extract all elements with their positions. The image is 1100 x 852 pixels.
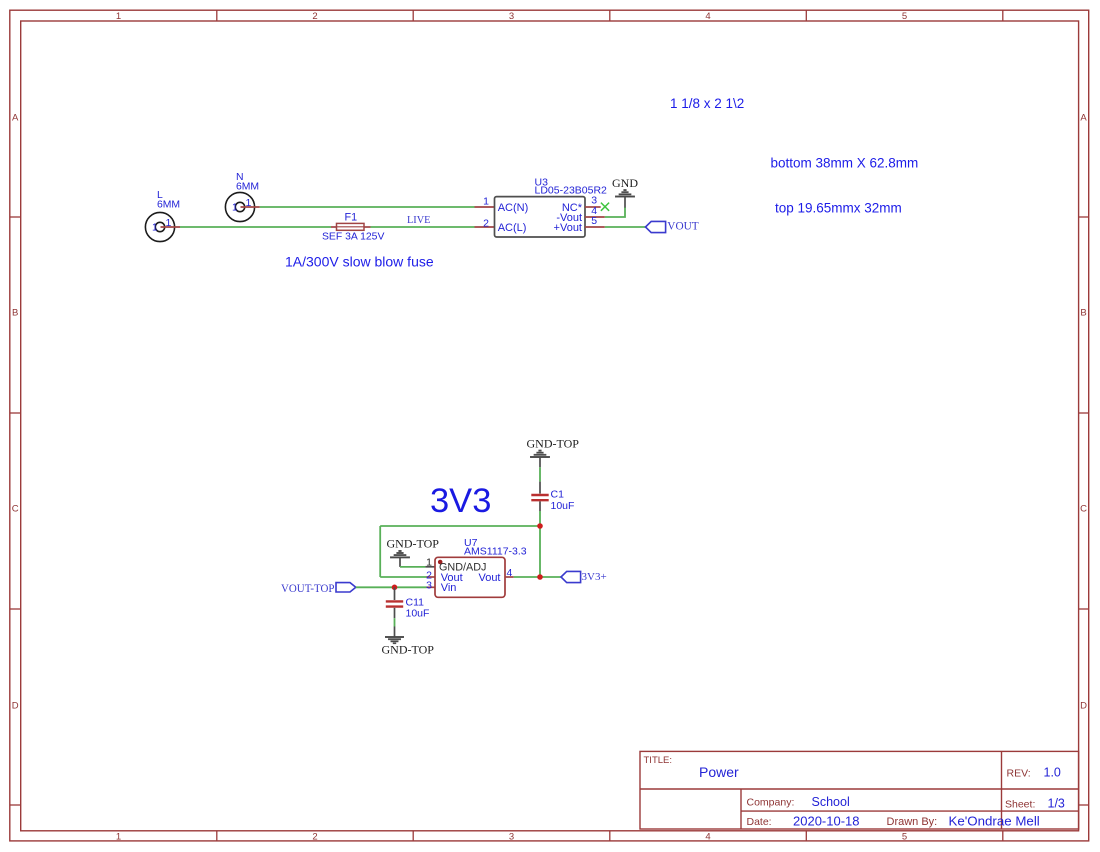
svg-text:4: 4 <box>705 832 710 843</box>
svg-text:A: A <box>1080 113 1087 124</box>
svg-text:TITLE:: TITLE: <box>644 755 673 766</box>
svg-text:C: C <box>12 504 19 515</box>
net label GND <box>612 176 638 190</box>
net label GND-TOP (bottom) <box>382 643 435 657</box>
svg-text:1: 1 <box>246 197 252 209</box>
capacitor C1 10uF <box>531 489 574 512</box>
net flag 3V3+ <box>561 571 607 583</box>
svg-text:AC(L): AC(L) <box>498 222 527 234</box>
svg-text:5: 5 <box>902 11 907 22</box>
frame column numbers top <box>116 11 907 22</box>
U7 pin 3 <box>426 579 435 591</box>
wire U3 pin4 to GND <box>605 207 625 217</box>
U7 pin 4 <box>505 567 514 579</box>
svg-text:D: D <box>1080 701 1087 712</box>
junction at C11 <box>392 585 398 591</box>
svg-text:1 1/8 x 2 1\2: 1 1/8 x 2 1\2 <box>670 96 744 111</box>
svg-text:6MM: 6MM <box>157 199 180 210</box>
C11 bottom lead <box>394 608 396 618</box>
frame row letters right <box>1080 113 1087 712</box>
U7 body AMS1117-3.3 <box>435 537 527 597</box>
wire N to U3 pin1 <box>260 206 475 208</box>
svg-text:Vin: Vin <box>441 582 457 594</box>
svg-text:2: 2 <box>312 11 317 22</box>
fuse F1 SEF 3A 125V <box>322 212 384 243</box>
svg-text:Drawn By:: Drawn By: <box>887 816 938 828</box>
svg-text:6MM: 6MM <box>236 181 259 192</box>
svg-text:Sheet:: Sheet: <box>1005 799 1035 811</box>
junction at C1 / loop <box>537 523 543 529</box>
svg-text:GND: GND <box>612 176 638 190</box>
svg-text:top 19.65mmx 32mm: top 19.65mmx 32mm <box>775 201 902 216</box>
svg-text:1/3: 1/3 <box>1048 797 1065 811</box>
svg-text:C1: C1 <box>551 489 565 501</box>
svg-text:Date:: Date: <box>747 816 772 828</box>
svg-text:3: 3 <box>509 11 514 22</box>
svg-text:1: 1 <box>166 217 172 229</box>
svg-text:1: 1 <box>116 832 121 843</box>
svg-text:1: 1 <box>152 222 158 233</box>
svg-text:Vout: Vout <box>478 572 500 584</box>
connector L (6MM) <box>145 190 180 242</box>
U3 pin 4 <box>585 205 605 217</box>
frame column ticks top <box>217 10 1003 21</box>
note text top 19.65mmx 32mm <box>775 201 902 216</box>
U3 pin 5 <box>585 215 605 227</box>
U3 pin 3 NC <box>585 195 601 208</box>
svg-text:VOUT: VOUT <box>667 220 698 232</box>
svg-text:C: C <box>1080 504 1087 515</box>
svg-text:1: 1 <box>426 556 432 568</box>
U7 pin 2 <box>426 570 435 582</box>
wire junction down to pin4 net <box>539 526 541 577</box>
svg-text:3: 3 <box>426 579 432 591</box>
svg-text:School: School <box>812 795 850 809</box>
svg-text:10uF: 10uF <box>551 500 575 512</box>
svg-text:5: 5 <box>902 832 907 843</box>
ground GND (earth symbol) <box>615 189 634 197</box>
svg-text:Ke'Ondrae Mell: Ke'Ondrae Mell <box>949 814 1040 829</box>
svg-text:3V3+: 3V3+ <box>582 571 607 583</box>
C1 top lead <box>539 482 541 494</box>
net label LIVE <box>407 215 430 226</box>
wire junction left <box>380 525 540 527</box>
U3 pin 1 <box>475 196 495 208</box>
svg-text:SEF 3A 125V: SEF 3A 125V <box>322 232 384 243</box>
wire L to fuse <box>180 226 331 228</box>
net flag VOUT <box>646 220 699 232</box>
svg-text:1A/300V slow blow fuse: 1A/300V slow blow fuse <box>285 254 434 270</box>
wire VOUT-TOP to U7 pin3 <box>356 586 427 588</box>
svg-text:REV:: REV: <box>1007 768 1031 780</box>
svg-text:AC(N): AC(N) <box>498 202 529 214</box>
svg-text:4: 4 <box>507 567 513 579</box>
frame row ticks right <box>1079 217 1089 805</box>
svg-text:1: 1 <box>483 196 489 208</box>
C11 top lead <box>394 587 396 600</box>
title block texts <box>644 755 1065 829</box>
net flag VOUT-TOP <box>281 581 356 595</box>
junction at pin4 net <box>537 574 543 580</box>
ground GND-TOP top (earth symbol) <box>530 450 549 458</box>
ground lead to C1 <box>539 458 541 468</box>
svg-text:3: 3 <box>509 832 514 843</box>
svg-text:1: 1 <box>116 11 121 22</box>
svg-text:+Vout: +Vout <box>554 222 582 234</box>
svg-text:1: 1 <box>232 202 238 213</box>
svg-text:Company:: Company: <box>747 797 795 809</box>
no-connect X on U3 pin 3 <box>601 203 609 211</box>
wire gnd to U7 pin1 <box>400 566 425 568</box>
note text 1A/300V slow blow fuse <box>285 254 434 270</box>
ground GND-TOP bottom (earth symbol, flipped) <box>385 636 404 644</box>
svg-text:D: D <box>12 701 19 712</box>
frame row ticks left <box>10 217 21 805</box>
svg-text:F1: F1 <box>345 212 358 224</box>
C1 bottom lead <box>539 501 541 511</box>
U7 pin 1 <box>425 556 435 568</box>
svg-text:B: B <box>12 308 18 319</box>
gnd lead <box>394 627 396 637</box>
wire C1 to junction <box>539 511 541 526</box>
note text bottom 38mm X 62.8mm <box>771 156 919 171</box>
svg-text:B: B <box>1080 308 1086 319</box>
svg-text:A: A <box>12 113 19 124</box>
GND symbol lead <box>624 197 626 208</box>
svg-text:LIVE: LIVE <box>407 215 430 226</box>
U3 body LD05-23B05R2 <box>495 177 608 238</box>
svg-text:GND-TOP: GND-TOP <box>387 537 440 551</box>
wire to U7 pin2 <box>380 576 426 578</box>
wire fuse to U3 pin2, net LIVE <box>371 226 475 228</box>
U3 pin 2 <box>475 218 495 230</box>
wire U7 pin4 to 3V3+ flag <box>514 576 561 578</box>
ground lead down <box>399 558 401 567</box>
svg-text:Power: Power <box>699 764 739 780</box>
svg-text:4: 4 <box>705 11 710 22</box>
svg-text:2020-10-18: 2020-10-18 <box>793 814 860 829</box>
svg-text:GND-TOP: GND-TOP <box>527 437 580 451</box>
svg-text:3V3: 3V3 <box>430 482 491 520</box>
capacitor C11 10uF <box>386 597 430 620</box>
frame column numbers bottom <box>116 832 907 843</box>
svg-text:1.0: 1.0 <box>1044 766 1061 780</box>
svg-text:GND-TOP: GND-TOP <box>382 643 435 657</box>
title block outline <box>640 751 1079 829</box>
connector N (6MM) <box>225 172 259 222</box>
frame row letters left <box>12 113 19 712</box>
note text 1 1/8 x 2 1\2 <box>670 96 744 111</box>
svg-text:AMS1117-3.3: AMS1117-3.3 <box>464 546 527 558</box>
net label GND-TOP (top) <box>527 437 580 451</box>
ground GND-TOP middle (earth symbol) <box>390 550 409 558</box>
svg-text:2: 2 <box>312 832 317 843</box>
frame column ticks bottom <box>217 831 1003 841</box>
wire U3 pin5 to VOUT flag <box>605 226 646 228</box>
svg-text:5: 5 <box>591 215 597 227</box>
big net name 3V3 <box>430 482 491 520</box>
wire C11 to gnd <box>394 618 396 626</box>
svg-text:2: 2 <box>483 218 489 230</box>
svg-text:10uF: 10uF <box>406 608 430 620</box>
wire left vertical <box>379 526 381 577</box>
wire gnd to C1 <box>539 467 541 481</box>
svg-text:bottom 38mm X 62.8mm: bottom 38mm X 62.8mm <box>771 156 919 171</box>
svg-text:VOUT-TOP: VOUT-TOP <box>281 581 335 595</box>
net label GND-TOP (middle) <box>387 537 440 551</box>
